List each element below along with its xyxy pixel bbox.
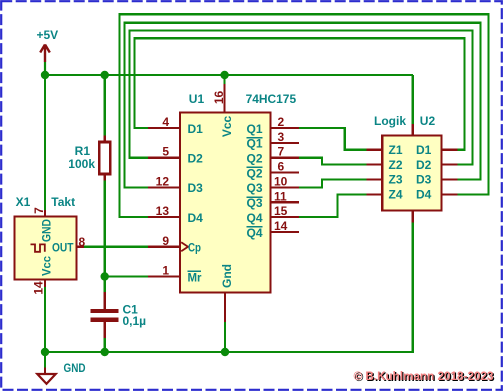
- svg-text:9: 9: [162, 234, 169, 248]
- svg-text:Q4: Q4: [246, 211, 262, 225]
- wire GND rail: [45, 351, 413, 353]
- svg-text:Mr: Mr: [188, 271, 202, 285]
- svg-text:Gnd: Gnd: [220, 264, 234, 288]
- wire feedback U2.D4 to U1.D4: [120, 14, 489, 217]
- IC U2 Logik: [382, 135, 441, 210]
- resistor R1: [99, 136, 110, 181]
- wire feedback U2.D1 to U1.D1: [135, 38, 465, 150]
- svg-text:OUT: OUT: [52, 241, 74, 255]
- wire X1.OUT to U1.Cp: [84, 246, 148, 248]
- pin Z3 of U2: [367, 173, 403, 187]
- svg-text:© B.Kuhlmann 2018-2023: © B.Kuhlmann 2018-2023: [354, 369, 494, 383]
- svg-text:X1: X1: [16, 195, 31, 209]
- junction node Mr / R1 / C1: [101, 272, 109, 280]
- svg-text:GND: GND: [64, 361, 86, 375]
- svg-text:Vcc: Vcc: [40, 256, 54, 276]
- pin 1 Mr of U1: [148, 264, 202, 285]
- junction +5V / X1: [41, 71, 49, 79]
- junction GND rail / U1 Gnd: [221, 348, 229, 356]
- wire U2 bottom pin to GND rail: [412, 223, 414, 354]
- junction GND rail / C1: [101, 348, 109, 356]
- svg-text:11: 11: [274, 189, 287, 203]
- svg-text:3: 3: [278, 130, 285, 144]
- pin Z1 of U2: [367, 143, 403, 157]
- pin 14 Q4bar of U1: [246, 219, 299, 240]
- svg-text:U2: U2: [420, 114, 436, 128]
- wire U1.Q4 to U2.Z4: [299, 194, 367, 217]
- svg-text:Q3: Q3: [246, 196, 262, 210]
- svg-text:7: 7: [32, 207, 46, 214]
- pin D3 of U2: [416, 173, 458, 187]
- svg-text:Cp: Cp: [188, 240, 201, 254]
- wire feedback U2.D2 to U1.D2: [130, 31, 473, 165]
- wire feedback U2.D3 to U1.D3: [125, 23, 481, 188]
- svg-text:Q4: Q4: [246, 226, 262, 240]
- svg-text:Q2: Q2: [246, 166, 262, 180]
- svg-text:D3: D3: [416, 173, 432, 187]
- svg-text:D4: D4: [188, 211, 204, 225]
- svg-text:Logik: Logik: [374, 114, 406, 128]
- svg-text:Z2: Z2: [389, 158, 403, 172]
- svg-text:2: 2: [278, 115, 285, 129]
- svg-text:74HC175: 74HC175: [246, 92, 297, 106]
- X1 square wave glyph: [31, 244, 45, 251]
- svg-text:+5V: +5V: [37, 28, 59, 42]
- svg-text:Z4: Z4: [389, 188, 403, 202]
- capacitor C1: [91, 292, 119, 338]
- svg-text:U1: U1: [189, 92, 205, 106]
- wire +5V feed to U2: [412, 75, 414, 124]
- pin 11 Q3bar of U1: [246, 189, 299, 210]
- pin 12 D3 of U1: [148, 174, 203, 195]
- copyright watermark: [354, 369, 496, 384]
- pin D4 of U2: [416, 188, 458, 202]
- pin 3 Q1bar of U1: [246, 130, 299, 151]
- svg-text:13: 13: [156, 204, 170, 218]
- svg-text:Z1: Z1: [389, 143, 403, 157]
- svg-text:D1: D1: [188, 122, 204, 136]
- svg-text:16: 16: [212, 91, 226, 105]
- wire U1.Q3 to U2.Z3: [299, 180, 367, 188]
- pin 4 D1 of U1: [148, 115, 203, 136]
- pin 13 D4 of U1: [148, 204, 203, 225]
- svg-text:14: 14: [274, 219, 288, 233]
- svg-text:Q1: Q1: [246, 137, 262, 151]
- svg-text:R1: R1: [75, 144, 91, 158]
- svg-text:14: 14: [32, 281, 46, 295]
- junction +5V / U1 Vcc: [220, 71, 228, 79]
- wire C1 bottom to GND rail: [104, 338, 106, 352]
- pin Z4 of U2: [367, 188, 403, 202]
- pin 5 D2 of U1: [148, 145, 203, 166]
- svg-text:15: 15: [274, 204, 288, 218]
- pin D2 of U2: [416, 158, 458, 172]
- svg-text:D2: D2: [188, 152, 204, 166]
- U2 top power pin: [412, 124, 414, 135]
- svg-text:1: 1: [162, 264, 169, 278]
- junction GND rail / X1: [41, 348, 49, 356]
- svg-text:D2: D2: [416, 158, 432, 172]
- svg-text:10: 10: [274, 174, 288, 188]
- svg-text:D3: D3: [188, 181, 204, 195]
- svg-text:5: 5: [162, 145, 169, 159]
- svg-text:7: 7: [278, 145, 285, 159]
- svg-text:6: 6: [278, 160, 285, 174]
- svg-text:8: 8: [79, 235, 86, 249]
- wire Mr node to U1.Mr: [105, 275, 148, 277]
- wire +5V rail: [45, 74, 413, 76]
- pin D1 of U2: [416, 143, 458, 157]
- oscillator X1: [15, 210, 84, 287]
- svg-text:D1: D1: [416, 143, 432, 157]
- pin 10 Q3 of U1: [246, 174, 299, 195]
- svg-text:Q3: Q3: [246, 181, 262, 195]
- wire R1 top lead from rail: [104, 75, 106, 136]
- wire U1.Q1 to U2.Z1: [299, 128, 367, 150]
- wire U1.Q2 to U2.Z2: [299, 158, 367, 165]
- pin 8 Gnd of U1: [224, 293, 226, 353]
- pin 6 Q2bar of U1: [246, 160, 299, 181]
- svg-text:100k: 100k: [68, 157, 95, 171]
- pin 2 Q1 of U1: [246, 115, 299, 136]
- IC U1 74HC175: [180, 113, 271, 293]
- svg-text:D4: D4: [416, 188, 432, 202]
- pin 15 Q4 of U1: [246, 204, 299, 225]
- svg-text:4: 4: [162, 115, 169, 129]
- power symbol +5V: [37, 28, 59, 75]
- svg-text:Q2: Q2: [246, 152, 262, 166]
- pin 16 Vcc of U1: [212, 75, 226, 113]
- U2 bottom power pin: [412, 210, 414, 222]
- pin 7 Q2 of U1: [246, 145, 299, 166]
- ground symbol GND: [37, 352, 55, 384]
- junction +5V / R1: [101, 71, 109, 79]
- pin Z2 of U2: [367, 158, 403, 172]
- svg-text:Q1: Q1: [246, 122, 262, 136]
- wire X1 pin14 to GND rail: [44, 287, 46, 352]
- svg-text:Takt: Takt: [51, 195, 75, 209]
- wire R1 bottom to Mr node: [104, 181, 106, 293]
- svg-text:12: 12: [156, 174, 170, 188]
- wire X1 pin7 to +5V: [44, 75, 46, 210]
- svg-text:0,1µ: 0,1µ: [123, 314, 147, 328]
- svg-text:Z3: Z3: [389, 173, 403, 187]
- svg-text:Vcc: Vcc: [220, 116, 234, 138]
- pin 9 Cp of U1: [148, 234, 201, 255]
- svg-text:GND: GND: [40, 219, 54, 242]
